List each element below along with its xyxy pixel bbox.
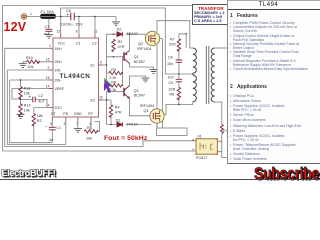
node transformer details box: [192, 4, 228, 25]
wire Q1 base column: [122, 57, 124, 86]
wire E1 to driver node: [103, 64, 107, 66]
svg-text:10n: 10n: [167, 62, 173, 66]
svg-text:Q1: Q1: [134, 55, 139, 59]
svg-text:11: 11: [94, 29, 98, 33]
wire R4 taps: [107, 100, 112, 125]
terminal 12V input: [21, 14, 27, 20]
svg-text:DTC: DTC: [55, 106, 63, 110]
wire C8 ground stub: [115, 17, 117, 22]
resistor R4: [109, 105, 112, 117]
svg-text:R9: R9: [170, 93, 175, 97]
wire center tap row: [165, 73, 193, 75]
wire C7 leads: [48, 19, 50, 35]
resistor R3: [112, 39, 115, 51]
svg-text:4: 4: [192, 138, 194, 142]
wire C5-C4 leads: [178, 62, 180, 87]
wire Q4 source to shunt: [156, 123, 158, 128]
mouse cursor: [104, 78, 112, 93]
svg-text:10k: 10k: [28, 65, 34, 69]
resistor R10: [27, 60, 40, 63]
wire C2 row: [21, 99, 48, 107]
wire 12V top rail: [61, 8, 166, 74]
wire bottom driver column: [106, 92, 108, 125]
svg-text:9: 9: [100, 61, 102, 65]
svg-text:R7: R7: [170, 37, 175, 41]
IC U2 TL494CN body: [53, 38, 99, 117]
wire secondary bottom to opto: [215, 102, 227, 158]
shunt box outline: [157, 128, 188, 136]
svg-text:5: 5: [50, 122, 52, 126]
svg-text:6: 6: [90, 122, 92, 126]
wire Q1 collector to ground: [130, 64, 154, 70]
datasheet page overlay: [227, 0, 320, 164]
svg-text:PC817: PC817: [196, 156, 207, 160]
svg-text:3: 3: [192, 148, 194, 152]
wire C1 timing leads: [51, 122, 53, 143]
ground near C7: [45, 34, 53, 38]
resistor R2: [32, 114, 35, 126]
resistor R5: [109, 71, 123, 74]
svg-text:2: 2: [48, 66, 50, 70]
svg-text:R4: R4: [115, 105, 120, 109]
wire 12V input row: [27, 16, 116, 18]
svg-text:4: 4: [48, 103, 50, 107]
svg-text:22R: 22R: [169, 42, 176, 46]
resistor R7: [177, 39, 180, 51]
wire bottom gate row with diode D1: [107, 124, 152, 126]
wire R5 row: [107, 72, 123, 74]
svg-text:R3: R3: [118, 40, 123, 44]
svg-text:FR107: FR107: [127, 32, 138, 36]
wire snubber top row: [179, 34, 186, 48]
wire 1IN- net left bus: [7, 70, 66, 145]
svg-text:2.2k: 2.2k: [109, 76, 116, 80]
svg-text:RT: RT: [88, 112, 94, 116]
svg-text:1n: 1n: [49, 138, 53, 142]
fuse F1: [41, 14, 56, 18]
resistor R8 feedback: [220, 125, 223, 134]
svg-text:7: 7: [76, 122, 78, 126]
svg-text:14: 14: [46, 84, 50, 88]
IC pin stubs: [49, 34, 103, 122]
label 12V: [4, 20, 27, 34]
wire Q1 emitter up: [129, 34, 131, 50]
diode D1: [117, 122, 122, 127]
svg-text:IRF1404: IRF1404: [137, 47, 151, 51]
svg-text:VCC: VCC: [58, 41, 66, 45]
capacitor C4: [176, 79, 182, 82]
IC pin numbers and port names: [30, 12, 194, 152]
wire feedback net to opto pin4: [5, 48, 196, 146]
wire C2 collector drop: [94, 17, 96, 34]
resistor R6: [109, 84, 123, 87]
wire R2 leads: [34, 108, 49, 143]
wire Q2 drain top row: [157, 21, 193, 48]
svg-text:8: 8: [76, 29, 78, 33]
wire R6 row: [107, 85, 123, 87]
svg-text:TL494CN: TL494CN: [60, 73, 91, 80]
wire R14 bottom lead: [20, 113, 22, 115]
sheet border frame top: [3, 5, 229, 7]
wire R9 lead: [178, 97, 180, 104]
transformer TR1 primary winding: [193, 48, 197, 102]
ground below GND pin: [74, 128, 82, 132]
svg-text:GND: GND: [74, 112, 82, 116]
wire transformer bottom row to Q4 drain: [164, 102, 193, 115]
wire secondary top: [215, 47, 227, 49]
svg-text:C2: C2: [92, 41, 97, 45]
svg-text:U1: U1: [197, 135, 202, 139]
svg-text:R14: R14: [24, 104, 31, 108]
svg-text:C6: C6: [168, 55, 173, 59]
svg-text:+: +: [29, 95, 31, 99]
svg-text:+: +: [45, 124, 47, 128]
sheet border frame left: [2, 6, 4, 151]
svg-text:47R: 47R: [118, 45, 125, 49]
svg-text:2IN+: 2IN+: [55, 60, 63, 64]
wire source bus column B: [160, 39, 163, 129]
resistor R1: [84, 130, 98, 133]
svg-text:22R: 22R: [169, 87, 176, 91]
ground near R10: [19, 64, 27, 68]
svg-text:10k: 10k: [86, 137, 92, 141]
svg-text:C2: C2: [38, 94, 43, 98]
mosfet Q2 IRF1404: [145, 31, 159, 45]
wire 2IN- net left bus: [10, 80, 53, 143]
svg-text:47R: 47R: [115, 110, 122, 114]
svg-text:Q4: Q4: [144, 109, 149, 113]
wire R10 leads: [23, 62, 49, 64]
capacitor C6: [176, 60, 182, 62]
svg-text:IRF1404: IRF1404: [140, 104, 154, 108]
schematic SVG layer: [0, 0, 320, 180]
svg-text:+: +: [67, 13, 69, 17]
wire Q3 collector to ground: [130, 76, 146, 86]
svg-text:1IN+: 1IN+: [55, 47, 63, 51]
watermark ElectroBUFF: [2, 168, 56, 178]
svg-text:10n: 10n: [168, 76, 174, 80]
svg-text:Q2: Q2: [138, 42, 143, 46]
resistor R14: [19, 104, 22, 116]
svg-text:3: 3: [64, 122, 66, 126]
transistor Q3 BC547: [123, 88, 125, 96]
optocoupler U1 PC817: [195, 138, 218, 155]
wire R12 top lead: [20, 80, 22, 87]
svg-text:104: 104: [44, 32, 49, 36]
wire Q3 base row: [107, 91, 124, 93]
junction dots: [20, 16, 194, 125]
svg-text:R5: R5: [111, 68, 116, 72]
wire Q1 base row: [107, 56, 124, 58]
subscribe watermark: [254, 164, 319, 184]
svg-text:1000u, 35V: 1000u, 35V: [61, 21, 84, 26]
svg-text:BC547: BC547: [134, 94, 145, 98]
transformer TR1 secondary winding: [211, 48, 215, 102]
capacitor C1: [49, 127, 56, 130]
wire C1 collector drop: [78, 17, 80, 34]
svg-text:Q3: Q3: [134, 89, 139, 93]
svg-text:1: 1: [30, 12, 32, 16]
svg-text:E2: E2: [91, 98, 95, 102]
svg-text:C4: C4: [169, 81, 174, 85]
wire VCC pin12 drop: [60, 17, 62, 34]
svg-text:10: 10: [99, 96, 103, 100]
svg-text:C1: C1: [56, 126, 61, 130]
svg-text:E1: E1: [91, 63, 95, 67]
wire source bus column A: [156, 45, 158, 128]
wire top driver column: [106, 34, 108, 86]
wire RT loop: [91, 122, 100, 132]
svg-text:R6: R6: [111, 81, 116, 85]
svg-text:1: 1: [49, 44, 51, 48]
transformer TR1 core: [206, 46, 209, 104]
wire FB column: [65, 122, 67, 145]
svg-text:12: 12: [57, 29, 61, 33]
svg-text:R10: R10: [26, 56, 33, 60]
mosfet Q4 IRF1404: [150, 109, 164, 123]
ground near C8: [112, 22, 120, 26]
resistor R9: [177, 87, 180, 99]
transistor Q1 BC557: [123, 52, 125, 60]
wire E2 to driver node: [103, 99, 107, 101]
svg-text:D1: D1: [116, 119, 121, 123]
capacitor C7: [45, 29, 52, 31]
svg-text:BC557: BC557: [134, 60, 145, 64]
ground near Q3: [142, 78, 150, 82]
svg-text:CT: CT: [51, 112, 57, 116]
ground near Q1: [150, 70, 158, 74]
wire GND column: [77, 122, 79, 129]
svg-text:F1 50A: F1 50A: [41, 10, 55, 14]
svg-text:R12: R12: [24, 86, 31, 90]
svg-text:4u7: 4u7: [38, 100, 44, 104]
svg-text:D2: D2: [117, 28, 122, 32]
label Fout: [104, 135, 147, 142]
resistor R12: [19, 87, 22, 99]
polarity marks: [29, 13, 69, 128]
wire R12-R14 junction: [20, 95, 22, 104]
svg-text:C1: C1: [76, 41, 81, 45]
wire bottom net to opto pin3: [3, 150, 197, 152]
schematic tiny labels: [24, 9, 228, 160]
svg-text:R1: R1: [87, 126, 92, 130]
svg-text:16: 16: [46, 58, 50, 62]
svg-text:FR107: FR107: [127, 123, 138, 127]
wire R7 leads: [178, 34, 180, 60]
diode D2: [117, 32, 122, 37]
wire Q3 emitter to Q4 gate: [130, 99, 150, 116]
bottom edge line: [0, 179, 320, 180]
svg-text:VREF: VREF: [55, 87, 65, 91]
capacitor C8: [71, 13, 74, 20]
svg-text:C7: C7: [45, 25, 50, 29]
wire VREF net left bus: [12, 89, 49, 100]
svg-text:FB: FB: [63, 112, 68, 116]
ground below R14: [17, 115, 25, 119]
svg-text:10k: 10k: [24, 109, 30, 113]
svg-text:R2: R2: [37, 119, 42, 123]
wire top gate row with diode D2: [107, 33, 146, 35]
svg-text:18k: 18k: [37, 114, 43, 118]
capacitor C2: [33, 97, 35, 103]
svg-text:15: 15: [46, 76, 50, 80]
